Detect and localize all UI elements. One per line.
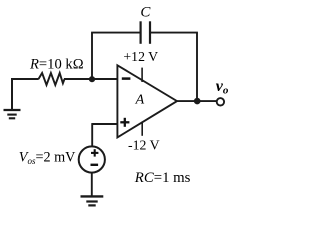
- wire node N1 riser to feedback top: [91, 33, 93, 79]
- svg-text:Vos=2 mV: Vos=2 mV: [19, 150, 76, 167]
- svg-text:R=10 kΩ: R=10 kΩ: [29, 57, 84, 73]
- svg-text:C: C: [140, 5, 151, 21]
- wire source Vos to ground: [91, 173, 93, 197]
- wire ground to resistor R: [11, 78, 39, 80]
- source Vos minus marker: [91, 164, 99, 166]
- svg-text:RC=1 ms: RC=1 ms: [134, 170, 191, 186]
- junction node N1: [89, 76, 95, 82]
- op-amp non-inverting input marker (plus): [120, 118, 129, 127]
- wire non-inverting input to source riser: [92, 123, 117, 125]
- ground GND2 (below source Vos): [81, 196, 104, 205]
- svg-text:+12 V: +12 V: [123, 49, 158, 64]
- op-amp positive supply pin: [141, 68, 143, 82]
- source Vos: [79, 146, 105, 172]
- op-amp negative supply pin: [141, 122, 143, 136]
- capacitor C: [141, 21, 150, 44]
- source Vos plus marker: [91, 149, 98, 156]
- op-amp A: [117, 65, 177, 137]
- wire riser to source Vos: [91, 123, 93, 146]
- wire capacitor C to feedback right corner: [151, 32, 198, 34]
- output terminal vo: [217, 98, 224, 105]
- wire op-amp output to terminal: [177, 100, 216, 102]
- ground GND1 (left, at inverting input network): [4, 79, 21, 118]
- wire resistor to node N1: [64, 78, 92, 80]
- op-amp inverting input marker (minus): [122, 77, 131, 80]
- wire feedback right riser to output node: [196, 33, 198, 101]
- wire node N1 to op-amp inverting input: [92, 78, 118, 80]
- junction node N2 (output): [194, 98, 201, 105]
- wire feedback top left to capacitor C: [91, 32, 140, 34]
- svg-text:-12 V: -12 V: [128, 138, 160, 153]
- svg-text:A: A: [135, 93, 145, 108]
- resistor R: [39, 73, 65, 85]
